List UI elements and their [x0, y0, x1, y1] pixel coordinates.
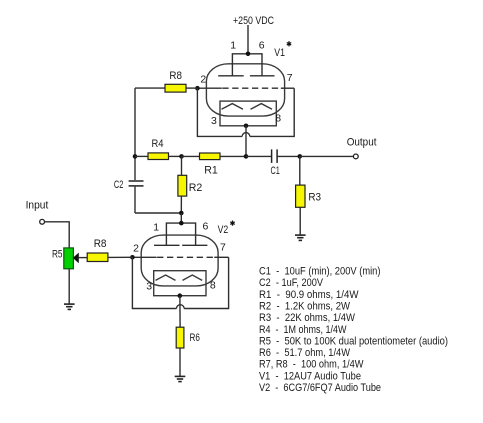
resistor R4 [135, 155, 148, 157]
asterisk note V2 [230, 221, 234, 226]
svg-text:C1: C1 [271, 165, 280, 177]
V2 cathode box [154, 271, 206, 296]
svg-text:R6 - 51.7 ohm, 1/4W: R6 - 51.7 ohm, 1/4W [259, 347, 351, 359]
output terminal [353, 154, 358, 159]
svg-text:C2: C2 [114, 179, 124, 191]
svg-text:3: 3 [146, 281, 152, 293]
V2 cathode chevron right [183, 275, 203, 280]
wire V1 grid loop right [250, 88, 294, 136]
wire to output [300, 155, 354, 157]
svg-text:8: 8 [275, 113, 281, 125]
wire V1 cathode down [245, 126, 247, 157]
wire left branch vertical [134, 88, 136, 180]
svg-text:3: 3 [211, 115, 217, 127]
svg-text:1: 1 [230, 40, 236, 52]
svg-text:R8: R8 [169, 70, 182, 82]
svg-text:R1: R1 [204, 165, 218, 177]
svg-text:R5 - 50K to 100K dual potent: R5 - 50K to 100K dual potentiometer (aud… [259, 335, 448, 347]
V1 cathode chevron right [251, 104, 273, 110]
node left branch at R4 [133, 154, 138, 159]
V1 right plate [250, 75, 275, 77]
node output junction [298, 154, 303, 159]
tube V2 envelope [141, 235, 218, 286]
svg-text:R5: R5 [52, 249, 63, 261]
asterisk note V1 [287, 41, 291, 46]
svg-text:1: 1 [153, 222, 159, 234]
wire input to pot [45, 222, 70, 248]
svg-text:6: 6 [259, 40, 265, 52]
svg-text:C1 - 10uF (min), 200V (min): C1 - 10uF (min), 200V (min) [259, 266, 381, 278]
svg-text:6: 6 [203, 221, 209, 233]
V1 left plate [218, 75, 244, 77]
node V2 cathode tie [178, 293, 183, 298]
svg-text:R7, R8 - 100 ohm, 1/4W: R7, R8 - 100 ohm, 1/4W [259, 359, 364, 371]
svg-text:R2: R2 [189, 182, 203, 194]
ground below R3 [295, 235, 306, 240]
wire V1 grid loop left [197, 88, 242, 136]
svg-text:V1 - 12AU7 Audio Tube: V1 - 12AU7 Audio Tube [259, 370, 361, 382]
node V1 grid pin 2 [195, 86, 200, 91]
svg-text:R6: R6 [190, 332, 200, 344]
svg-text:2: 2 [133, 242, 139, 254]
potentiometer R5 [64, 248, 74, 269]
svg-text:R1 - 90.9 ohms, 1/4W: R1 - 90.9 ohms, 1/4W [259, 289, 359, 301]
svg-text:V2 - 6CG7/6FQ7 Audio Tube: V2 - 6CG7/6FQ7 Audio Tube [259, 382, 381, 394]
svg-text:8: 8 [210, 280, 216, 292]
resistor R8 top [135, 87, 165, 89]
svg-text:+250 VDC: +250 VDC [233, 15, 274, 27]
svg-text:Output: Output [347, 136, 377, 148]
ground below R5 [64, 304, 75, 309]
V1 cathode box [220, 101, 276, 126]
resistor R1 [182, 155, 200, 157]
V2 left plate [154, 244, 180, 246]
node V1 plate junction [246, 52, 251, 57]
tube V1 envelope [206, 64, 284, 116]
node main row cathode junction [244, 154, 249, 159]
wire hop over cathode lead [242, 133, 250, 137]
wire C2 bottom row [135, 212, 181, 214]
wire V2 grid loop left [132, 257, 176, 308]
svg-text:7: 7 [287, 72, 293, 84]
V1 grid dashed line [197, 87, 221, 89]
svg-text:C2 - 1uF, 200V: C2 - 1uF, 200V [259, 277, 324, 289]
resistor R2 [181, 156, 183, 175]
svg-text:R4: R4 [152, 138, 164, 150]
svg-text:R3 - 22K ohms, 1/4W: R3 - 22K ohms, 1/4W [259, 312, 356, 324]
svg-text:7: 7 [220, 241, 226, 253]
wire V2 plate tie bar pins 1-6 [166, 223, 195, 245]
svg-text:2: 2 [200, 74, 206, 86]
ground below R6 [175, 376, 186, 381]
capacitor C1 [246, 155, 272, 157]
V2 cathode chevron left [156, 275, 176, 280]
V2 right plate [182, 244, 207, 246]
V2 grid dashed line [132, 256, 156, 258]
svg-text:V1: V1 [274, 47, 285, 59]
wire pot bottom to ground [68, 269, 70, 304]
wire R2 bottom to V2 plates [180, 213, 182, 223]
wire supply to V1 plates [247, 25, 249, 54]
wire V1 plate tie bar pins 1-6 [232, 54, 262, 76]
R5 wiper arrow [73, 253, 79, 264]
resistor R6 [176, 327, 184, 348]
wire V2 grid loop right [184, 257, 229, 308]
svg-text:R2 - 1.2K ohms, 2W: R2 - 1.2K ohms, 2W [259, 301, 351, 313]
node R2 top [179, 154, 184, 159]
svg-text:Input: Input [26, 200, 49, 212]
wire V2 cathode down [179, 296, 181, 328]
wire hop over V2 cathode lead [177, 305, 185, 309]
svg-text:R8: R8 [94, 238, 107, 250]
V1 cathode chevron left [222, 104, 244, 110]
capacitor C2 [129, 181, 144, 186]
svg-text:R4 - 1M ohms, 1/4W: R4 - 1M ohms, 1/4W [259, 324, 347, 336]
node V1 cathode tie [244, 124, 249, 129]
svg-text:V2: V2 [218, 224, 229, 236]
node V2 grid pin 2 [130, 255, 135, 260]
node R2 bottom [179, 211, 184, 216]
svg-text:R3: R3 [308, 191, 321, 203]
resistor R3 [299, 156, 301, 185]
node V2 plate junction [179, 221, 184, 226]
resistor R8 bottom [87, 253, 108, 262]
parts list [259, 266, 448, 395]
